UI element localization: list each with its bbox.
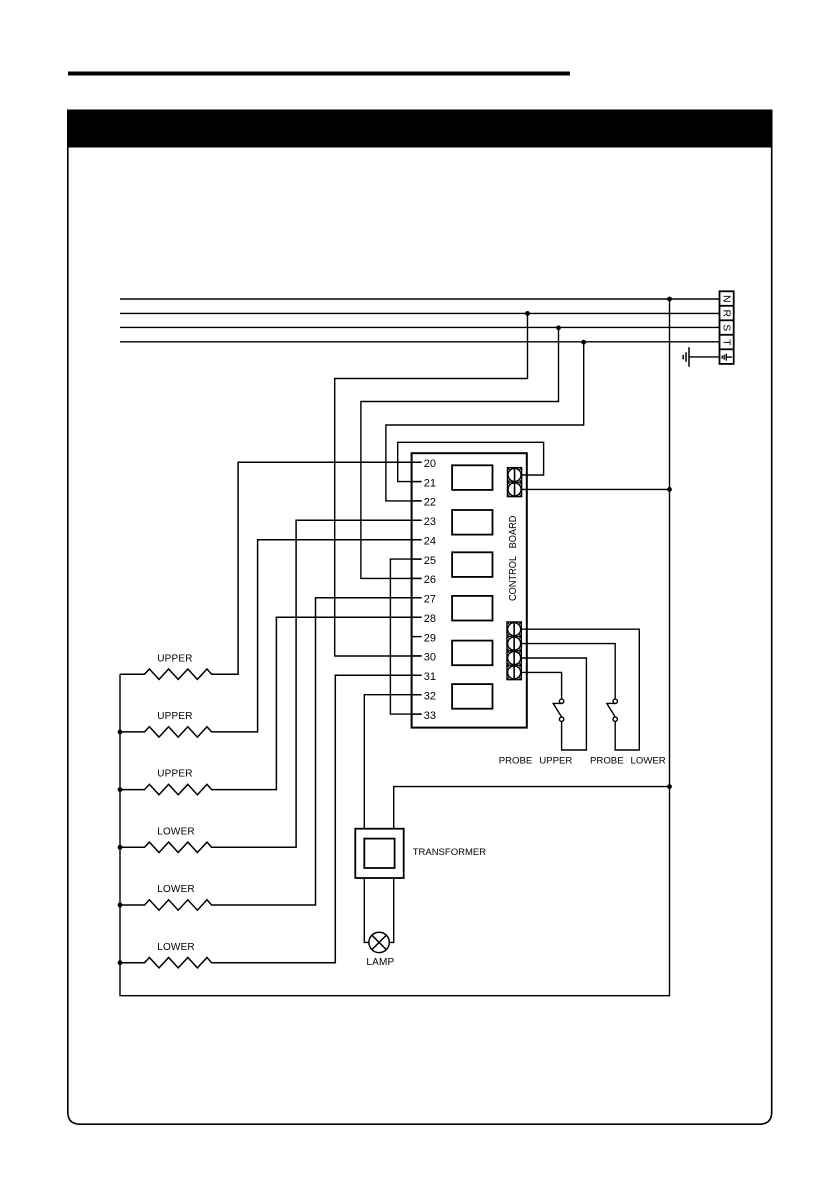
- svg-text:UPPER: UPPER: [157, 769, 192, 780]
- relay K2: [452, 510, 492, 535]
- junction dot line T: [581, 340, 586, 345]
- svg-text:33: 33: [424, 710, 436, 722]
- wire: line R drop to pin 30: [335, 313, 528, 656]
- wire transformer secondary right to lamp: [389, 878, 393, 942]
- junction dot bus R4: [118, 845, 123, 850]
- resistor LOWER 2: [120, 598, 422, 910]
- terminal earth glyph: [722, 354, 732, 361]
- terminal block TB1: [720, 291, 734, 364]
- header bar: [67, 110, 773, 148]
- resistor LOWER 3: [120, 675, 422, 968]
- junction dot line N: [667, 297, 672, 302]
- junction dot line R: [525, 311, 530, 316]
- connector J2: [507, 622, 521, 680]
- svg-text:28: 28: [424, 613, 436, 625]
- relay K4: [452, 596, 492, 621]
- svg-text:26: 26: [424, 574, 436, 586]
- wire J2 pin 1 to switch PROBE LOWER bottom: [521, 629, 639, 750]
- svg-text:TRANSFORMER: TRANSFORMER: [413, 847, 487, 858]
- wire transformer primary right to line N vertical: [394, 787, 670, 829]
- svg-text:23: 23: [424, 516, 436, 528]
- svg-text:PROBE LOWER: PROBE LOWER: [590, 756, 666, 767]
- relay K3: [452, 552, 492, 577]
- wire transformer secondary left to lamp: [364, 878, 369, 942]
- mains line T: [120, 341, 720, 343]
- wire pin 32 to transformer primary left: [364, 695, 421, 829]
- svg-text:CONTROL: CONTROL: [508, 555, 520, 601]
- svg-text:29: 29: [424, 632, 436, 644]
- wire: line N down to bottom bus: [120, 299, 670, 996]
- relay K1: [452, 465, 492, 490]
- svg-text:N: N: [721, 295, 733, 303]
- svg-text:24: 24: [424, 536, 436, 548]
- svg-text:21: 21: [424, 477, 436, 489]
- svg-text:R: R: [721, 310, 733, 318]
- wire J2 pin 3 to switch PROBE UPPER bottom: [521, 658, 586, 750]
- resistor UPPER 2: [120, 540, 422, 737]
- relay K6: [452, 684, 492, 709]
- mains line N: [120, 298, 720, 300]
- svg-text:30: 30: [424, 652, 436, 664]
- svg-text:20: 20: [424, 458, 436, 470]
- wire J1 pin 2 to line N vertical: [522, 488, 670, 490]
- wire J2 pin 4 to switch PROBE UPPER top: [521, 672, 561, 699]
- control board outline: [412, 453, 527, 727]
- ground symbol: [683, 347, 689, 367]
- lamp LP1: [369, 932, 389, 952]
- pin labels 20-33: [424, 458, 436, 722]
- junction dot line S: [556, 325, 561, 330]
- junction dot J1-2 / N: [667, 487, 672, 492]
- svg-text:UPPER: UPPER: [157, 653, 192, 664]
- junction dot bus R2: [118, 730, 123, 735]
- svg-text:32: 32: [424, 691, 436, 703]
- wire pin 21 to J1 pin 1: [398, 442, 544, 481]
- relay K5: [452, 641, 492, 666]
- junction dot bus R6: [118, 960, 123, 965]
- svg-text:UPPER: UPPER: [157, 711, 192, 722]
- svg-text:25: 25: [424, 555, 436, 567]
- junction dot bus R3: [118, 787, 123, 792]
- svg-text:T: T: [721, 339, 733, 346]
- wire: line S drop to pin 26: [361, 328, 559, 579]
- diagram frame: [68, 147, 772, 1124]
- wire pin 25 jumper to pin 33: [390, 559, 421, 714]
- svg-text:LAMP: LAMP: [366, 957, 394, 968]
- svg-text:BOARD: BOARD: [508, 516, 520, 549]
- svg-text:LOWER: LOWER: [157, 826, 195, 837]
- junction dot transformer / N: [667, 784, 672, 789]
- wire J2 pin 2 to switch PROBE LOWER top: [521, 644, 615, 700]
- resistor LOWER 1: [120, 520, 422, 852]
- junction dot bus R5: [118, 903, 123, 908]
- ground wire: [689, 356, 720, 358]
- svg-text:22: 22: [424, 497, 436, 509]
- mains line R: [120, 312, 720, 314]
- svg-text:S: S: [721, 324, 733, 331]
- pin ticks 20-33: [412, 462, 422, 714]
- mains line S: [120, 326, 720, 328]
- resistor UPPER 3: [120, 617, 422, 795]
- svg-text:31: 31: [424, 671, 436, 683]
- svg-text:LOWER: LOWER: [157, 884, 195, 895]
- connector J1: [507, 468, 521, 497]
- transformer T1: [355, 829, 403, 878]
- resistor UPPER 1: [120, 462, 422, 679]
- switch PROBE UPPER: [553, 699, 564, 721]
- wire: line T drop to pin 22: [386, 342, 584, 501]
- switch PROBE LOWER: [607, 699, 618, 721]
- svg-text:27: 27: [424, 594, 436, 606]
- svg-text:LOWER: LOWER: [157, 942, 195, 953]
- title rule: [68, 72, 570, 76]
- svg-text:PROBE UPPER: PROBE UPPER: [499, 756, 573, 767]
